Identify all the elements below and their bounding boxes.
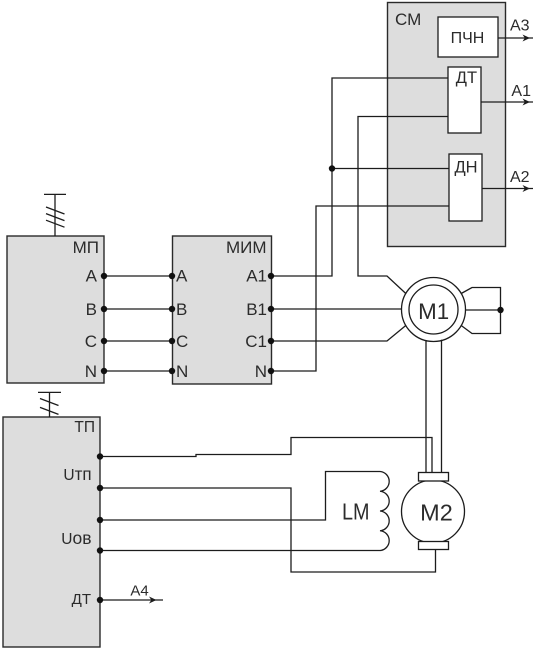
wire MP-C to MIM-C: [104, 340, 172, 342]
svg-text:С: С: [176, 332, 188, 351]
arrow A2 output from DN: [482, 169, 533, 192]
node MIM-C1: [268, 338, 274, 344]
node M1 star point: [497, 307, 503, 313]
M2 bottom brush: [419, 542, 449, 550]
arrow A1 output from DT: [481, 83, 533, 106]
svg-text:ДН: ДН: [454, 159, 477, 177]
wire MP-A to MIM-A: [104, 275, 172, 277]
box PCHN (ПЧН): [438, 17, 498, 57]
svg-text:СМ: СМ: [395, 10, 421, 29]
motor M1 outer circle: [402, 278, 466, 342]
arrow A3 output from PCHN: [498, 17, 533, 41]
node TP p2: [97, 485, 103, 491]
motor M2 circle: [402, 480, 465, 543]
svg-text:N: N: [255, 362, 267, 381]
wire MP-B to MIM-B: [104, 308, 172, 310]
svg-text:Uов: Uов: [61, 528, 91, 548]
wire B1 to M1: [271, 308, 402, 310]
svg-text:ДТ: ДТ: [456, 69, 477, 87]
svg-text:А1: А1: [511, 83, 531, 100]
block MP (МП): [7, 236, 104, 383]
TP pin labels: [61, 464, 91, 608]
wire DN upper input from node on A1 riser: [332, 168, 449, 170]
node TP p4: [97, 547, 103, 553]
M1 right star-point wiring: [461, 288, 500, 334]
wire TP p4 to LM bottom: [100, 550, 380, 552]
node TP p1: [97, 453, 103, 459]
svg-text:N: N: [85, 362, 97, 381]
svg-text:В1: В1: [246, 300, 267, 319]
node MIM-A1: [268, 273, 274, 279]
block MIM (МИМ): [173, 236, 272, 384]
node MIM-N-right: [268, 368, 274, 374]
wire A1 to DT upper input: [271, 78, 448, 276]
svg-text:В: В: [86, 300, 97, 319]
svg-text:ДТ: ДТ: [72, 591, 91, 608]
node A1 riser to DN: [329, 165, 335, 171]
block TP (ТП): [3, 417, 100, 647]
wire TP p2 to M2 bottom brush: [100, 488, 436, 572]
node MIM-A: [169, 273, 175, 279]
box DN (ДН): [449, 154, 482, 221]
box DT (ДТ): [448, 67, 481, 133]
svg-text:М1: М1: [418, 299, 449, 324]
svg-text:А: А: [86, 267, 98, 286]
pin labels MIM right: A1 B1 C1 N: [245, 267, 267, 382]
svg-text:А: А: [176, 267, 188, 286]
node MP-C: [101, 338, 107, 344]
shaft wire right M1 to M2: [441, 340, 443, 473]
svg-text:В: В: [176, 300, 187, 319]
wire TP p3 to LM top: [100, 472, 380, 521]
pin labels MP right: A B C N: [85, 267, 98, 382]
node MP-N: [101, 368, 107, 374]
node TP DT: [97, 597, 103, 603]
arrow A4 output: [100, 583, 163, 604]
node MP-A: [101, 273, 107, 279]
inductor LM coil: [380, 472, 389, 551]
svg-text:А3: А3: [510, 17, 530, 34]
node MIM-B: [169, 306, 175, 312]
node MIM-N: [169, 368, 175, 374]
block CM (СМ): [388, 3, 506, 247]
motor M1 inner circle: [409, 285, 458, 334]
node MIM-C: [169, 338, 175, 344]
svg-text:ТП: ТП: [74, 419, 95, 436]
svg-text:А1: А1: [246, 267, 267, 286]
svg-text:М2: М2: [420, 500, 453, 526]
svg-text:А4: А4: [130, 583, 148, 600]
wire DT lower to M1 phase A: [358, 117, 448, 294]
svg-text:N: N: [176, 362, 188, 381]
wire C1 to M1: [271, 326, 406, 342]
wire MP-N to MIM-N: [104, 370, 172, 372]
wire TP p1 to M2 top brush: [100, 438, 432, 473]
svg-text:LM: LM: [342, 499, 370, 525]
svg-text:МП: МП: [73, 238, 99, 257]
svg-text:ПЧН: ПЧН: [451, 30, 485, 47]
node MP-B: [101, 306, 107, 312]
svg-text:С: С: [85, 332, 97, 351]
node MIM-B1: [268, 306, 274, 312]
supply symbol above MP (3-phase): [44, 194, 66, 236]
svg-text:С1: С1: [245, 332, 267, 351]
wire N to DN lower input: [271, 206, 449, 371]
node TP p3: [97, 517, 103, 523]
pin labels MIM left: A B C N: [176, 267, 188, 382]
svg-text:МИМ: МИМ: [226, 238, 267, 257]
M2 top brush: [419, 473, 449, 482]
supply symbol above TP (2-wire): [38, 392, 61, 417]
shaft wire left M1 to M2: [425, 340, 427, 473]
svg-text:А2: А2: [510, 169, 530, 186]
svg-text:Uтп: Uтп: [63, 464, 91, 484]
